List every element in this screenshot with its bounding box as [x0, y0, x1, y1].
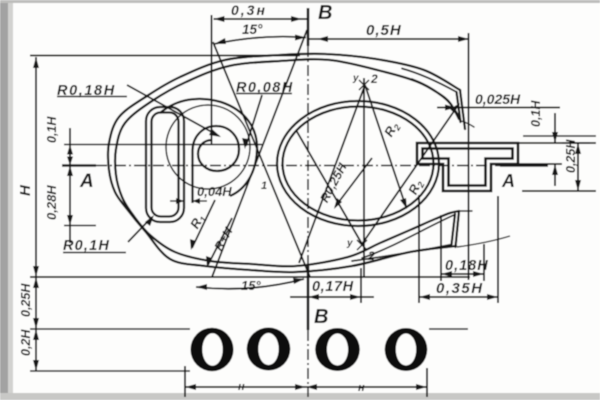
letter P loop inner spiral circle [193, 126, 240, 171]
center line A-A horizontal [62, 164, 548, 166]
big C end cap top-right outer [460, 90, 465, 129]
big C outer boundary [108, 54, 460, 272]
svg-text:В: В [318, 2, 332, 24]
construction arc extension bottom right [457, 236, 510, 247]
top scan edge shading [0, 0, 600, 3]
dimension H left [30, 56, 470, 372]
svg-text:0,1Н: 0,1Н [529, 100, 543, 127]
big C inner boundary [115, 59, 459, 266]
svg-text:0,25Н: 0,25Н [19, 283, 33, 317]
dimension 0,25H right of T [522, 143, 596, 191]
svg-text:0,5Н: 0,5Н [366, 22, 402, 39]
dimension 0,1H right of T [518, 113, 596, 186]
arrowhead R2 upper end [400, 198, 407, 209]
svg-text:0,1Н: 0,1Н [45, 116, 59, 143]
leader R0,18H [127, 85, 219, 136]
construction radius line R0,25H [335, 158, 372, 207]
point 2 top cross [357, 80, 369, 250]
T-section detail outer contour [417, 143, 518, 191]
leader R0,08H [246, 95, 262, 146]
svg-text:0,025Н: 0,025Н [475, 91, 521, 107]
T-section detail inner contour [423, 149, 513, 186]
svg-text:н: н [358, 382, 365, 394]
letter P bar inner contour [152, 113, 179, 217]
arrowhead R2 lower end [450, 103, 460, 113]
dimension н bottom [185, 366, 427, 397]
construction arc extension past bottom caps [459, 210, 472, 212]
big C wall stub along inner boundary top-right [412, 79, 460, 118]
letter P bar outer contour [146, 107, 184, 222]
dimension 0,35H bottom right [419, 195, 498, 303]
svg-text:у: у [352, 73, 359, 84]
svg-text:15°: 15° [241, 278, 261, 293]
dimension 0,18H bottom right [441, 215, 484, 281]
bottom scan edge shading [0, 393, 600, 400]
big C end cap bottom-right outer [456, 211, 460, 247]
big C end cap top-right inner wall [457, 92, 461, 122]
svg-text:R0,18Н: R0,18Н [57, 83, 116, 99]
label shelf R0,1H [63, 252, 126, 254]
big C wall stub along inner boundary bottom-right [362, 215, 455, 259]
svg-text:0,35Н: 0,35Н [436, 280, 484, 297]
big C wall stub along outer boundary bottom-right [352, 245, 452, 262]
svg-text:0,04Н: 0,04Н [197, 184, 232, 199]
dimension 0,3H top [212, 15, 309, 145]
svg-text:В: В [314, 306, 328, 328]
leader R0,1H [128, 217, 152, 242]
svg-text:0,3н: 0,3н [231, 2, 267, 18]
svg-text:0,17Н: 0,17Н [312, 279, 354, 295]
dimension 0,17H bottom [290, 268, 374, 303]
big C wall stub along outer boundary top-right [402, 69, 457, 93]
letter P construction circle R0,18H [166, 105, 250, 189]
svg-text:Н: Н [17, 184, 34, 196]
construction line point2bot up-left [296, 130, 362, 244]
construction vertical through points 2 [363, 78, 365, 277]
label shelf R0,18H [57, 96, 127, 98]
construction line LB 15deg [212, 30, 307, 277]
leader R1 [192, 200, 215, 248]
dimension 0,1H 0,28H left [64, 128, 262, 243]
svg-text:А: А [79, 171, 94, 192]
letter O (small) outer wall [277, 101, 439, 226]
construction line LA 15deg [213, 42, 310, 277]
letter O (small) inner wall [283, 107, 434, 221]
leader R+H [208, 218, 232, 265]
svg-text:R0,1Н: R0,1Н [63, 238, 110, 254]
dimension arc 15deg top [214, 37, 306, 44]
arrowhead R0,25H end [334, 198, 342, 209]
construction radius line R2 upper: point2top to lower arc [365, 85, 406, 207]
construction radius line R2 lower: point2bot to top cap [362, 104, 459, 244]
construction lines [212, 30, 510, 277]
letter P loop outer spiral arc [160, 99, 257, 196]
svg-text:2: 2 [370, 72, 378, 86]
left scan edge shading [0, 0, 8, 400]
svg-text:н: н [238, 381, 245, 393]
svg-text:0,25Н: 0,25Н [564, 139, 578, 173]
svg-text:0,2Н: 0,2Н [19, 329, 33, 356]
construction line point2top down-left [299, 85, 365, 263]
center line B-B vertical [307, 8, 310, 397]
letters OOOO bottom [191, 328, 428, 372]
dimension 0,5H top [308, 33, 469, 280]
leader 0,025H [437, 107, 560, 109]
construction arc extension past top cap [461, 121, 474, 127]
svg-text:у: у [346, 238, 353, 249]
big C end cap bottom-right inner wall [452, 214, 456, 245]
dimension arc 15deg bottom [196, 279, 304, 289]
svg-text:0,18Н: 0,18Н [445, 258, 489, 274]
arrowheads H and 0,25H 0,2H chain [33, 57, 39, 68]
svg-text:1: 1 [261, 180, 267, 192]
dimension 0,04H [170, 200, 207, 202]
svg-text:А: А [501, 171, 515, 191]
svg-text:R0,08Н: R0,08Н [236, 80, 294, 96]
svg-text:15°: 15° [242, 22, 263, 37]
svg-text:2: 2 [367, 249, 375, 263]
svg-text:0,28Н: 0,28Н [44, 185, 59, 220]
letter P loop spiral end vertical [191, 150, 193, 203]
label shelf R0,08H [236, 93, 292, 95]
